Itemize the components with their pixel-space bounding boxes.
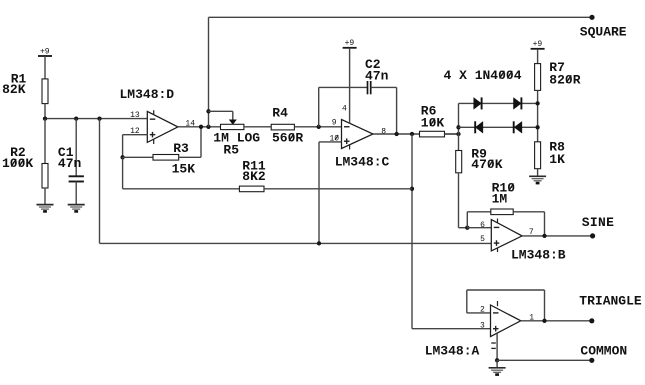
- wire pin 12 from feedback: [123, 134, 148, 136]
- wire pin 11 to common node: [496, 333, 498, 360]
- wire op-amp A feedback top: [467, 289, 545, 291]
- svg-text:LM348:D: LM348:D: [120, 87, 175, 102]
- node A divider rail wire: [45, 118, 147, 120]
- wire R11 to triangle tap: [264, 188, 412, 190]
- svg-text:8: 8: [381, 127, 386, 136]
- wire pin 10 from bias rail: [319, 141, 342, 143]
- svg-text:1M: 1M: [492, 192, 508, 207]
- wire R8 to ground: [537, 169, 539, 177]
- power +9 P1 above R1: [38, 47, 52, 56]
- op-amp U1A minus mark: [493, 312, 499, 314]
- junction pin 10 / bias rail: [317, 241, 321, 245]
- svg-text:470K: 470K: [471, 157, 502, 172]
- wire R10 left lead: [467, 211, 491, 213]
- svg-text:820R: 820R: [549, 72, 580, 87]
- diode D4 1N4004: [514, 121, 522, 133]
- wire +9 to pin 4 of op-amp C: [349, 48, 351, 124]
- op-amp U1A top power tick: [497, 301, 499, 306]
- wire op-amp A output row: [521, 320, 592, 322]
- svg-text:LM348:C: LM348:C: [335, 155, 390, 170]
- pin 11 label rotated: [491, 343, 496, 348]
- wire op-amp A feedback left drop: [466, 290, 468, 313]
- wire op-amp A feedback right drop: [544, 290, 546, 321]
- power +9 P3 above R7: [531, 40, 545, 49]
- wire pin 12 down to R3 node: [122, 135, 124, 158]
- wire node A to R2 top: [44, 119, 46, 164]
- op-amp U1C triangle: [342, 120, 374, 149]
- svg-text:+9: +9: [40, 47, 50, 56]
- wire shaper rail vertical: [458, 103, 460, 150]
- junction output C / C2 feedback: [394, 132, 398, 136]
- junction node A at R1/R2: [43, 116, 47, 120]
- resistor R10 body: [491, 209, 513, 215]
- terminal COMMON dot: [589, 358, 594, 363]
- op-amp U1C plus mark: [344, 138, 350, 144]
- wire R11 row from R3 node: [123, 188, 240, 190]
- svg-text:9: 9: [332, 119, 337, 128]
- junction node A at C1: [74, 116, 78, 120]
- diode D2 1N4004: [514, 97, 522, 109]
- ground GND4 below op-amp A: [489, 368, 506, 375]
- resistor R11 body: [239, 186, 264, 192]
- wire R9 down to pin 6 row: [458, 173, 460, 228]
- svg-text:TRIANGLE: TRIANGLE: [579, 294, 642, 309]
- junction output D / square tap: [206, 125, 210, 129]
- svg-text:82K: 82K: [2, 82, 26, 97]
- svg-text:8K2: 8K2: [242, 169, 266, 184]
- wire pin 10 down to bias rail: [318, 142, 320, 244]
- op-amp U1C bottom power tick: [349, 145, 351, 150]
- svg-text:4 X 1N4004: 4 X 1N4004: [444, 68, 522, 83]
- potentiometer R5 wiper arrow: [229, 120, 236, 125]
- ground GND2 below C1: [68, 205, 85, 212]
- capacitor C1 plates: [69, 176, 84, 181]
- svg-text:1K: 1K: [549, 152, 565, 167]
- wire feedback up from pin 9 node: [318, 87, 320, 126]
- junction shaper node at R6: [456, 132, 460, 136]
- wire +9 to R7: [537, 49, 539, 64]
- svg-text:LM348:B: LM348:B: [511, 248, 566, 263]
- wire R10 right drop to output B: [544, 212, 546, 236]
- wire C1 bottom plate to ground: [75, 182, 77, 205]
- terminal SINE dot: [590, 233, 595, 238]
- svg-text:4: 4: [342, 105, 347, 114]
- resistor R3 body: [153, 155, 179, 161]
- wire bias rail down from node A: [99, 119, 101, 244]
- junction pin 6 node: [465, 226, 469, 230]
- resistor R7 body: [535, 64, 541, 91]
- junction diode rail lower: [535, 125, 539, 129]
- wire pin 2 from feedback: [467, 312, 491, 314]
- wire R2 bottom to ground: [44, 188, 46, 205]
- capacitor C2 plates: [368, 81, 371, 94]
- wire C2 feedback down to output C: [396, 87, 398, 134]
- resistor R9 body: [456, 151, 462, 173]
- wire op-amp D output: [178, 126, 221, 128]
- svg-text:5: 5: [480, 235, 485, 244]
- junction output C / triangle tap: [410, 132, 414, 136]
- diode D1 1N4004: [474, 97, 482, 109]
- potentiometer R5 body: [221, 124, 244, 129]
- op-amp U1D minus mark: [150, 118, 156, 120]
- junction triangle tap / R11: [410, 187, 414, 191]
- ground GND1 below R2: [37, 205, 54, 212]
- svg-text:LM348:A: LM348:A: [425, 344, 480, 359]
- wire R3 left lead: [123, 156, 153, 158]
- svg-text:R3: R3: [173, 141, 189, 156]
- resistor R2 body: [42, 164, 48, 189]
- op-amp U1D plus mark: [150, 132, 156, 138]
- op-amp U1D triangle: [147, 111, 178, 142]
- wire R9 elbow to pin 6 node: [459, 227, 468, 229]
- wire triangle tap to pin 3: [412, 328, 491, 330]
- op-amp U1C minus mark: [344, 126, 350, 128]
- junction common node: [495, 358, 499, 362]
- terminal SQUARE dot: [589, 15, 594, 20]
- svg-text:100K: 100K: [2, 156, 33, 171]
- wire R6 right lead to shaper node: [445, 133, 459, 135]
- svg-text:47n: 47n: [365, 69, 389, 84]
- power +9 P2 above op-amp C: [343, 39, 357, 48]
- op-amp U1B top power tick: [497, 219, 499, 224]
- wire square rail vertical: [208, 17, 210, 127]
- svg-text:47n: 47n: [58, 156, 82, 171]
- junction diode rail upper: [535, 101, 539, 105]
- svg-text:R4: R4: [272, 106, 288, 121]
- wire bias rail to pin 5 row: [100, 242, 492, 244]
- diode D3 1N4004: [475, 121, 483, 133]
- op-amp U1B minus mark: [494, 226, 500, 228]
- wire R3 up to op-amp D output: [200, 127, 202, 158]
- svg-text:6: 6: [480, 221, 485, 230]
- wire common row to COMMON terminal: [497, 359, 592, 361]
- svg-text:560R: 560R: [272, 131, 303, 146]
- op-amp U1A plus mark: [493, 326, 499, 332]
- junction node A at bias rail: [97, 116, 101, 120]
- wire R1 bottom to node A: [44, 104, 46, 119]
- wire upper diode row: [459, 102, 538, 104]
- op-amp U1B plus mark: [494, 240, 500, 246]
- junction wiper tap: [206, 109, 210, 113]
- wire R4 to pin 9 of op-amp C: [294, 126, 341, 128]
- wire R3 right lead: [179, 156, 201, 158]
- svg-text:+9: +9: [533, 40, 543, 49]
- op-amp U1B triangle: [491, 220, 522, 251]
- terminal TRIANGLE dot: [589, 318, 594, 323]
- wire op-amp B output row: [522, 235, 593, 237]
- op-amp U1A triangle: [491, 305, 521, 337]
- wire feedback top to C2 left plate: [319, 86, 368, 88]
- wire R5 to R4: [244, 126, 271, 128]
- svg-text:R5: R5: [223, 143, 239, 158]
- svg-text:3: 3: [480, 322, 485, 331]
- svg-text:15K: 15K: [172, 161, 196, 176]
- svg-text:COMMON: COMMON: [580, 344, 627, 359]
- op-amp U1B bottom power tick: [497, 248, 499, 253]
- junction output D / R3 feedback: [199, 125, 203, 129]
- resistor R1 body: [42, 79, 48, 104]
- svg-text:2: 2: [480, 305, 485, 314]
- junction output A / feedback: [542, 319, 546, 323]
- wire R3 node down to R11 row: [122, 157, 124, 189]
- junction integrator input node: [317, 125, 321, 129]
- wire lower diode row: [459, 126, 538, 128]
- wire C2 right plate to output drop: [371, 86, 397, 88]
- wire pin 6 node to op-amp B: [467, 227, 491, 229]
- op-amp U1D bottom power tick: [153, 139, 155, 144]
- wire R10 right lead: [513, 211, 544, 213]
- svg-text:SQUARE: SQUARE: [580, 25, 627, 40]
- junction output B / R10 feedback: [542, 234, 546, 238]
- svg-text:13: 13: [130, 111, 140, 120]
- wire +9 to R1 top: [44, 56, 46, 79]
- resistor R4 body: [271, 124, 294, 130]
- wire op-amp C output row: [373, 133, 459, 135]
- junction R3 left node: [120, 155, 124, 159]
- resistor R8 body: [535, 142, 541, 169]
- ground GND3 below R8: [529, 176, 546, 183]
- resistor R6 body: [420, 131, 445, 137]
- wire common node to ground: [496, 360, 498, 368]
- wire pot wiper horizontal: [209, 110, 233, 112]
- junction shaper rail / lower diode row: [456, 125, 460, 129]
- wire node A to C1 top plate: [75, 119, 77, 177]
- op-amp U1D top power tick: [153, 110, 155, 115]
- wire pot wiper vertical: [232, 111, 234, 120]
- wire R10 left drop: [466, 212, 468, 228]
- wire square rail horizontal to SQUARE terminal: [209, 16, 593, 18]
- slashed zero marks on value labels: [11, 71, 571, 191]
- svg-text:SINE: SINE: [582, 215, 614, 230]
- wire R7 to diode rows: [537, 90, 539, 141]
- svg-text:+9: +9: [345, 39, 355, 48]
- wire triangle tap vertical: [411, 134, 413, 329]
